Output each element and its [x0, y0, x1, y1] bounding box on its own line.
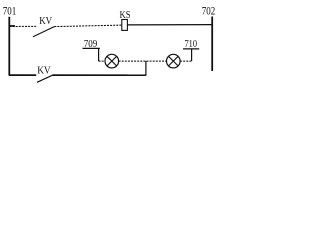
- lamp HL1 cross: [107, 56, 117, 66]
- wire: 710 terminal bar: [183, 48, 199, 50]
- wire: right bus vertical 702: [211, 17, 213, 72]
- wire: 709 lead down: [98, 48, 100, 61]
- wire: 710 lead up: [191, 49, 193, 61]
- wire: top rung left segment: [10, 25, 37, 27]
- lamp HL2 cross: [169, 56, 179, 66]
- contact KV (top) movable blade: [33, 27, 54, 37]
- relay coil KS body: [122, 20, 128, 31]
- wire: riser from bottom rung to lamp row: [145, 61, 147, 76]
- wire: top rung right segment: [127, 24, 211, 26]
- lamp HL2 (710) circle: [167, 54, 181, 68]
- wire: 709 terminal bar: [83, 47, 100, 49]
- wire: lamp 710 to lead: [180, 60, 192, 62]
- svg-text:702: 702: [202, 6, 216, 18]
- svg-text:KV: KV: [37, 65, 51, 76]
- wire: top rung stub at bus: [10, 25, 16, 27]
- svg-text:710: 710: [185, 39, 198, 50]
- wire: top rung middle segment: [54, 25, 122, 27]
- svg-text:KV: KV: [39, 16, 52, 27]
- wire: 709 lead to lamp: [99, 60, 105, 62]
- lamp HL1 (709) circle: [105, 54, 119, 68]
- svg-text:701: 701: [3, 6, 17, 18]
- contact KV (bottom) movable blade: [37, 75, 53, 82]
- wire: left bus vertical 701: [8, 17, 10, 76]
- wire: between lamps: [119, 60, 167, 62]
- wire: bottom rung horizontal: [9, 74, 146, 76]
- svg-text:KS: KS: [120, 10, 131, 21]
- erase gap for bottom KV contact: [36, 73, 52, 78]
